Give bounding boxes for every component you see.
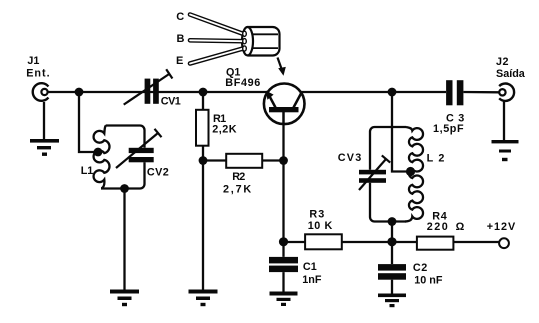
svg-text:CV2: CV2 — [147, 167, 169, 179]
svg-text:R2: R2 — [232, 171, 245, 183]
svg-text:Saída: Saída — [496, 68, 526, 80]
svg-text:220: 220 — [427, 221, 450, 233]
svg-text:J2: J2 — [496, 56, 509, 68]
svg-text:CV1: CV1 — [161, 96, 181, 108]
svg-text:E: E — [176, 55, 183, 67]
svg-text:C: C — [176, 11, 184, 23]
svg-text:B: B — [177, 33, 185, 45]
svg-text:L 2: L 2 — [427, 153, 446, 165]
svg-text:10 nF: 10 nF — [414, 274, 443, 286]
svg-text:1,5pF: 1,5pF — [433, 123, 464, 135]
svg-text:1nF: 1nF — [302, 274, 322, 286]
svg-text:C1: C1 — [303, 261, 317, 273]
svg-text:CV3: CV3 — [338, 152, 363, 164]
svg-text:R3: R3 — [309, 209, 325, 221]
svg-text:Ent.: Ent. — [26, 67, 50, 79]
svg-text:BF496: BF496 — [225, 77, 261, 89]
svg-text:2,2K: 2,2K — [212, 124, 237, 136]
svg-text:J1: J1 — [27, 55, 39, 67]
svg-text:10 K: 10 K — [308, 220, 333, 232]
svg-text:L1: L1 — [81, 165, 94, 177]
svg-text:2,7K: 2,7K — [223, 184, 253, 196]
svg-text:+12V: +12V — [487, 221, 517, 233]
svg-text:Ω: Ω — [456, 221, 465, 233]
svg-text:C2: C2 — [413, 262, 428, 274]
